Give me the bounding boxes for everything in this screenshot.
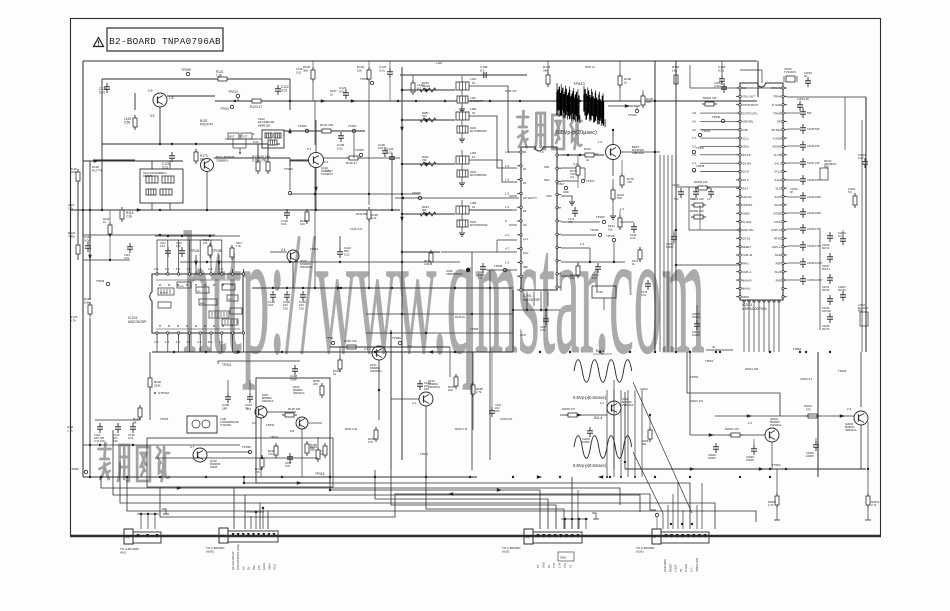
svg-text:VIDEO OUT: VIDEO OUT	[695, 557, 699, 572]
svg-text:18k: 18k	[672, 68, 677, 72]
svg-text:5.1: 5.1	[307, 147, 312, 151]
svg-text:1000P: 1000P	[666, 245, 674, 249]
resistor R154	[448, 374, 458, 392]
svg-text:TP014: TP014	[310, 247, 319, 251]
svg-text:C2044 3P: C2044 3P	[797, 97, 809, 101]
waveform sine 2	[574, 436, 632, 459]
svg-text:0.003: 0.003	[714, 84, 721, 88]
capacitor C108	[290, 365, 298, 381]
resistor R184	[420, 205, 436, 216]
node D mark	[655, 513, 658, 529]
svg-text:ADR(): ADR()	[742, 211, 750, 215]
wire	[244, 144, 280, 162]
IC101 top wires	[157, 240, 222, 269]
svg-text:C2029 470P: C2029 470P	[807, 245, 821, 248]
parts left column	[83, 210, 133, 286]
resistor R171	[318, 443, 327, 458]
wire	[225, 138, 262, 140]
svg-text:2SD8: 2SD8	[210, 465, 217, 469]
svg-text:TX: TX	[536, 564, 540, 568]
capacitor C167	[540, 310, 549, 332]
svg-text:sync: sync	[523, 238, 529, 241]
title box	[107, 28, 223, 51]
wire bus	[391, 470, 556, 529]
svg-text:L122: L122	[436, 61, 442, 65]
filter L160	[457, 90, 484, 112]
IC2001 left wires	[660, 113, 736, 352]
svg-text:TP008: TP008	[212, 249, 222, 253]
svg-text:0.01: 0.01	[281, 222, 287, 226]
svg-text:4.8k: 4.8k	[424, 262, 430, 266]
resistor R135	[367, 207, 378, 222]
svg-text:0.01: 0.01	[718, 68, 724, 72]
svg-text:0.01: 0.01	[592, 276, 598, 280]
svg-text:AIR SWITCH: AIR SWITCH	[523, 197, 537, 200]
svg-text:0.01: 0.01	[128, 436, 134, 440]
wire bus	[426, 477, 564, 529]
svg-text:2.3: 2.3	[219, 340, 224, 344]
wire	[180, 261, 460, 263]
transistor Q162	[190, 445, 221, 469]
svg-text:GND MAIN: GND MAIN	[663, 559, 667, 572]
svg-text:TP064: TP064	[793, 347, 802, 351]
IC101 bottom pin values	[154, 340, 223, 344]
svg-text:68: 68	[133, 420, 137, 424]
transistor D101	[201, 155, 291, 210]
resistor R138	[543, 61, 551, 87]
svg-text:ALIGN: ALIGN	[160, 292, 167, 295]
capacitor C165	[299, 291, 306, 310]
label TP813	[573, 81, 586, 86]
svg-text:I2S-CK: I2S-CK	[742, 153, 751, 157]
svg-text:1.6: 1.6	[505, 178, 510, 182]
svg-text:OCTRI BOUT: OCTRI BOUT	[742, 103, 759, 107]
resistor R117	[84, 297, 92, 317]
svg-text:8.2: 8.2	[480, 68, 485, 72]
svg-text:IF GND: IF GND	[772, 103, 781, 107]
wire bus	[375, 470, 548, 529]
svg-text:EFCT80RPW0: EFCT80RPW0	[470, 130, 487, 133]
svg-text:CAPL-L: CAPL-L	[742, 270, 752, 274]
resistor R156	[344, 339, 359, 349]
resistor R120	[70, 167, 80, 184]
resistor R2006	[694, 180, 710, 190]
labels scatter right	[640, 359, 847, 403]
svg-text:TP012: TP012	[228, 90, 238, 94]
node TP038	[692, 164, 704, 172]
capacitor C196	[283, 291, 290, 310]
label waveform value	[556, 130, 597, 136]
svg-text:C2038 22P: C2038 22P	[807, 179, 820, 182]
node TP006	[326, 336, 335, 345]
wire	[608, 104, 640, 107]
svg-text:R2014: R2014	[804, 404, 812, 408]
svg-text:R123 47: R123 47	[250, 105, 262, 109]
wire bus	[244, 477, 690, 529]
resistor R109	[641, 90, 653, 108]
svg-text:100: 100	[646, 100, 651, 104]
svg-text:0.01: 0.01	[296, 70, 302, 74]
svg-text:2SD601a: 2SD601a	[770, 423, 782, 427]
svg-text:XLY-B: XLY-B	[774, 153, 782, 157]
svg-text:B3: B3	[523, 209, 527, 213]
resistor R178	[620, 160, 634, 188]
svg-text:C2036 22P: C2036 22P	[807, 145, 820, 148]
svg-text:47k: 47k	[255, 470, 260, 474]
svg-text:R136 470: R136 470	[505, 89, 517, 93]
svg-text:4.9: 4.9	[176, 340, 181, 344]
capacitor C191	[620, 222, 637, 240]
svg-text:CAPL-N: CAPL-N	[771, 228, 781, 232]
svg-text:1.6: 1.6	[505, 205, 510, 209]
resistor R104b	[610, 179, 624, 219]
capacitor C123	[321, 86, 356, 103]
svg-text:I2S-WS: I2S-WS	[742, 161, 751, 165]
svg-text:10k: 10k	[310, 446, 315, 450]
svg-text:TP025: TP025	[392, 336, 401, 340]
svg-text:0.01: 0.01	[379, 68, 385, 72]
node TP037	[692, 146, 704, 154]
svg-text:15: 15	[472, 155, 476, 159]
wire long top	[215, 100, 757, 102]
svg-text:V IN: V IN	[563, 563, 567, 568]
resistor R116	[120, 207, 134, 222]
inductor L2001	[848, 187, 857, 208]
wire	[261, 412, 322, 477]
wire	[675, 187, 740, 352]
wire	[513, 309, 560, 311]
inner frame top wire	[83, 60, 757, 62]
svg-text:3.5: 3.5	[165, 267, 170, 271]
svg-text:C2028 470P: C2028 470P	[807, 228, 821, 231]
node TP004 TP008	[190, 249, 222, 274]
ground	[561, 190, 575, 205]
capacitor C156	[268, 291, 276, 307]
svg-text:TP040: TP040	[712, 115, 721, 119]
node TP011	[218, 361, 300, 367]
label C119	[84, 235, 91, 252]
svg-text:0.01: 0.01	[99, 91, 105, 95]
node TP007	[220, 105, 234, 111]
svg-text:100: 100	[448, 388, 453, 392]
IC201 bottom stubs	[526, 292, 548, 312]
svg-text:C5803802R27: C5803802R27	[446, 272, 463, 276]
resistor R130b	[303, 61, 315, 101]
small box	[592, 286, 616, 310]
svg-text:RFA2: RFA2	[774, 237, 781, 241]
svg-text:700: 700	[422, 114, 427, 118]
svg-text:TP026: TP026	[96, 279, 105, 283]
svg-text:AGC2: AGC2	[262, 562, 266, 570]
svg-text:C136: C136	[296, 67, 303, 71]
svg-text:C2003: C2003	[672, 184, 680, 187]
svg-text:GND: GND	[541, 562, 545, 568]
wire	[83, 444, 240, 446]
resistor R170b	[570, 155, 580, 188]
filter R183	[457, 214, 488, 236]
svg-text:TP063: TP063	[690, 375, 699, 379]
svg-text:220: 220	[495, 409, 500, 413]
filter L181	[456, 150, 477, 164]
svg-text:GTP010: GTP010	[158, 391, 170, 395]
filter L161	[456, 76, 477, 90]
node TP036	[698, 129, 710, 137]
wire left rail	[88, 161, 91, 478]
svg-text:50P: 50P	[807, 112, 812, 115]
block box	[147, 438, 333, 487]
svg-text:0.7k: 0.7k	[70, 318, 76, 322]
svg-text:SCL1: SCL1	[742, 136, 749, 140]
svg-text:TP004: TP004	[190, 249, 200, 253]
svg-text:R2001 47k: R2001 47k	[703, 96, 717, 100]
svg-text:1.2k: 1.2k	[216, 74, 222, 78]
svg-text:5V: 5V	[547, 565, 551, 568]
svg-text:TP018: TP018	[315, 472, 325, 476]
resistor R148	[282, 407, 301, 417]
node TP018	[315, 472, 331, 478]
svg-text:3.3: 3.3	[176, 267, 181, 271]
svg-text:REF: REF	[776, 262, 782, 266]
wire	[284, 124, 365, 133]
svg-text:B: B	[654, 535, 656, 539]
svg-text:B3-4: B3-4	[594, 415, 603, 420]
svg-text:JU: JU	[712, 345, 715, 349]
capacitor C130	[281, 209, 290, 226]
wire bus	[127, 477, 756, 529]
wire	[676, 61, 740, 187]
svg-text:TP036: TP036	[702, 129, 711, 133]
svg-text:1.8: 1.8	[169, 96, 174, 100]
svg-text:TP021: TP021	[298, 124, 307, 128]
svg-text:0.02: 0.02	[630, 236, 636, 240]
resistor R2014	[804, 404, 820, 418]
svg-text:I2S-0: I2S-0	[742, 178, 749, 182]
svg-text:100: 100	[299, 306, 304, 310]
inductor L121	[411, 75, 424, 95]
svg-text:NC: NC	[742, 86, 746, 90]
svg-text:1.5: 1.5	[540, 150, 544, 154]
resistor R149	[255, 455, 264, 474]
node TP025	[392, 336, 413, 348]
svg-text:5V: 5V	[679, 569, 683, 572]
svg-text:18P: 18P	[222, 406, 227, 410]
wire	[366, 332, 513, 334]
label R121b	[68, 183, 80, 260]
svg-text:MAIN-R: MAIN-R	[742, 278, 752, 282]
transistor D152	[412, 379, 440, 406]
svg-text:0.1: 0.1	[412, 401, 417, 405]
transistor Q2005	[600, 397, 634, 415]
svg-text:6.8k: 6.8k	[84, 300, 90, 304]
svg-text:TP007: TP007	[220, 107, 230, 111]
svg-text:RF AGC DELAY: RF AGC DELAY	[231, 551, 235, 570]
svg-text:0.9: 0.9	[150, 114, 155, 118]
wire	[155, 452, 318, 459]
IC2001 label	[742, 303, 767, 311]
svg-text:2.7k: 2.7k	[768, 503, 774, 507]
svg-text:12V: 12V	[257, 565, 261, 570]
node TP032b	[70, 467, 88, 474]
svg-text:2.1: 2.1	[748, 421, 753, 425]
svg-text:I2S-1: I2S-1	[742, 186, 749, 190]
svg-text:SYNC: SYNC	[178, 286, 184, 288]
svg-text:1.5: 1.5	[197, 267, 202, 271]
svg-text:0.1: 0.1	[707, 198, 711, 201]
svg-text:NC: NC	[241, 566, 245, 570]
capacitor C136b	[378, 143, 388, 157]
svg-text:GND DIG: GND DIG	[742, 228, 754, 232]
svg-text:2.0: 2.0	[324, 160, 329, 164]
resistor R2066	[690, 209, 706, 219]
svg-text:4.6: 4.6	[692, 128, 696, 132]
IC2001 left pin names	[742, 86, 759, 299]
capacitor C138	[400, 65, 527, 78]
wire right	[787, 97, 866, 352]
parts right of IC201	[568, 207, 651, 297]
svg-text:SM02: SM02	[742, 295, 750, 299]
resistor R2037	[642, 414, 652, 446]
node TP030	[486, 264, 517, 272]
svg-text:TP017: TP017	[586, 179, 595, 183]
svg-text:0.8: 0.8	[252, 421, 257, 425]
svg-text:USB: USB	[742, 128, 748, 132]
svg-text:2.2k: 2.2k	[126, 215, 132, 219]
svg-text:TP034: TP034	[266, 423, 275, 427]
svg-text:SGI2: SGI2	[775, 253, 782, 257]
svg-text:2.2: 2.2	[364, 347, 369, 351]
svg-text:5.1k: 5.1k	[371, 216, 377, 220]
svg-text:R177?k: R177?k	[92, 168, 103, 172]
resistor R160	[420, 81, 436, 92]
wire	[314, 101, 400, 289]
op-amp IC101 body	[150, 269, 245, 339]
svg-text:R133 56k: R133 56k	[356, 212, 368, 216]
svg-text:C IN: C IN	[558, 563, 562, 568]
labels scatter top	[296, 61, 596, 96]
svg-text:4.1: 4.1	[197, 340, 202, 344]
svg-text:1.6: 1.6	[505, 150, 510, 154]
wire	[512, 290, 514, 352]
capacitor C2046	[746, 439, 772, 469]
resistor R158	[471, 352, 483, 430]
wire	[70, 209, 400, 211]
svg-text:1.5: 1.5	[186, 267, 191, 271]
wire	[613, 130, 660, 176]
connector P2 labels	[231, 544, 277, 570]
svg-text:2.6: 2.6	[208, 267, 213, 271]
svg-text:SDA1: SDA1	[267, 563, 271, 570]
svg-text:TP031: TP031	[420, 452, 429, 456]
wire	[93, 93, 215, 160]
capacitor C135	[337, 132, 345, 150]
small boxes	[228, 133, 252, 154]
wire SW1	[561, 162, 585, 180]
svg-text:RFA1: RFA1	[742, 262, 749, 266]
svg-text:M5276OSP: M5276OSP	[128, 320, 147, 324]
label GTP010	[154, 391, 169, 395]
svg-text:C144 0.01: C144 0.01	[350, 227, 363, 231]
wire	[560, 380, 614, 469]
svg-text:0.8: 0.8	[290, 429, 295, 433]
svg-text:0.01: 0.01	[337, 146, 343, 150]
svg-text:3V DG1: 3V DG1	[742, 220, 752, 224]
svg-text:22: 22	[472, 205, 476, 209]
wire	[366, 313, 513, 315]
svg-text:5.6: 5.6	[848, 190, 852, 194]
svg-text:33V: 33V	[252, 565, 256, 570]
svg-text:MAIN-L: MAIN-L	[742, 287, 752, 291]
svg-text:1000P: 1000P	[746, 458, 754, 462]
svg-text:R130 47: R130 47	[346, 161, 357, 165]
svg-text:TP038: TP038	[696, 164, 705, 168]
resistor R130c	[346, 156, 361, 165]
junction	[446, 268, 470, 276]
svg-text:0.01: 0.01	[339, 89, 345, 93]
svg-text:GND (STATION GND): GND (STATION GND)	[236, 544, 240, 570]
capacitor C2040	[714, 81, 727, 93]
resistor R160b	[148, 352, 162, 420]
svg-text:D3: D3	[523, 181, 527, 185]
svg-text:2.6: 2.6	[219, 267, 224, 271]
svg-text:L OUT: L OUT	[674, 564, 678, 572]
wire feed y120	[402, 118, 455, 121]
svg-text:B2-BOARD TNPA0796AB: B2-BOARD TNPA0796AB	[109, 36, 221, 47]
svg-text:50V10: 50V10	[822, 328, 830, 331]
svg-text:10k: 10k	[608, 227, 613, 231]
svg-text:R2006 10k: R2006 10k	[694, 180, 708, 184]
svg-text:C2039 220P: C2039 220P	[807, 196, 821, 199]
resistor R2017	[768, 469, 780, 520]
svg-text:TP06: TP06	[326, 336, 334, 340]
node TP064	[793, 347, 807, 353]
svg-text:C2035 50P: C2035 50P	[807, 128, 820, 131]
wire	[561, 261, 625, 263]
capacitor C2045	[804, 71, 812, 87]
wire filter-ic links	[441, 86, 517, 252]
svg-text:220k: 220k	[154, 383, 161, 387]
svg-text:2.1: 2.1	[600, 401, 605, 405]
svg-text:TP037: TP037	[696, 146, 705, 150]
capacitor C190	[592, 263, 601, 280]
parts above IC101	[155, 235, 243, 260]
capacitor C164	[285, 453, 293, 468]
svg-text:TP058: TP058	[470, 327, 479, 331]
capacitor C201	[478, 263, 486, 280]
svg-text:6.8: 6.8	[594, 152, 599, 156]
resistor R2019	[865, 422, 880, 520]
svg-text:(H3): (H3)	[120, 550, 126, 554]
svg-text:MN2317SP: MN2317SP	[523, 298, 541, 302]
wire	[687, 352, 861, 469]
resistor R134	[672, 61, 680, 87]
wire	[654, 61, 656, 152]
wire bus under IC101	[152, 350, 513, 353]
filter R182	[457, 164, 487, 186]
resistor R168	[310, 437, 320, 462]
svg-text:SP ANA: SP ANA	[771, 128, 781, 132]
svg-text:2.4: 2.4	[281, 248, 286, 252]
svg-text:R2016 470: R2016 470	[690, 399, 704, 403]
svg-text:MSP3410DP084: MSP3410DP084	[742, 307, 767, 311]
svg-text:0.7: 0.7	[190, 445, 195, 449]
filter X102	[253, 117, 284, 148]
svg-text:RESET: RESET	[668, 563, 672, 572]
svg-text:R2066 100: R2066 100	[690, 209, 704, 213]
resistor R151	[333, 347, 342, 376]
leader line 1	[633, 382, 692, 513]
svg-text:2.2: 2.2	[165, 340, 170, 344]
capacitor C134	[718, 61, 726, 85]
